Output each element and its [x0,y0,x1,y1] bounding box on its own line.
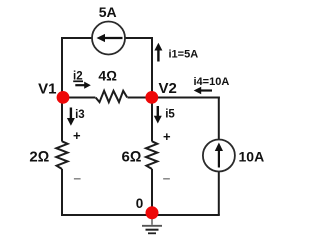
svg-text:4Ω: 4Ω [98,68,117,84]
svg-text:i4=10A: i4=10A [194,76,230,88]
svg-text:5A: 5A [99,4,117,20]
svg-text:i1=5A: i1=5A [169,49,199,61]
svg-text:–: – [74,171,82,186]
svg-text:i5: i5 [165,109,175,121]
svg-text:V1: V1 [38,81,56,98]
svg-text:+: + [73,128,81,143]
svg-text:6Ω: 6Ω [122,149,142,166]
svg-text:0: 0 [136,196,144,211]
svg-text:+: + [163,129,171,144]
svg-text:10A: 10A [239,149,265,165]
svg-text:–: – [163,171,171,186]
svg-text:V2: V2 [159,80,177,97]
svg-text:2Ω: 2Ω [29,149,49,166]
svg-text:i3: i3 [75,109,85,121]
